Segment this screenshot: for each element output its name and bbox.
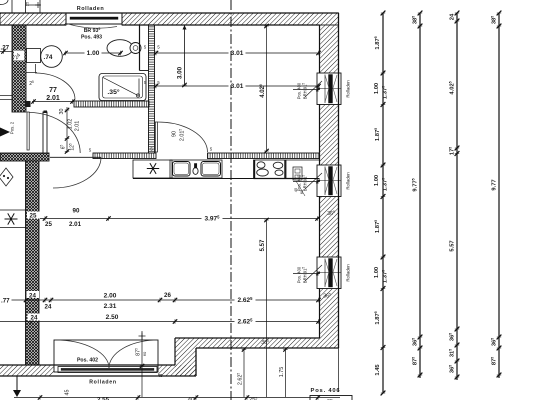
svg-text:BRH 915: BRH 915	[301, 83, 307, 100]
lines: left wall small marks	[0, 95, 13, 97]
symbol: diamond (landing)	[0, 168, 13, 186]
dim: hall line 90/2.01/3.97|5	[27, 208, 320, 229]
svg-text:2.01: 2.01	[75, 121, 81, 132]
svg-text:30: 30	[59, 109, 65, 115]
dim: 4.02|5 vertical room	[259, 24, 269, 153]
wall: left exterior lower (checkered)	[26, 161, 40, 365]
lines: toilet connection	[26, 72, 37, 74]
svg-text:5: 5	[89, 148, 92, 153]
wall: duct next to bathtub	[139, 25, 141, 71]
wall: hall checkered band	[0, 153, 49, 161]
svg-text:2.00: 2.00	[104, 293, 117, 300]
wall: bath south (ticks)	[25, 101, 149, 107]
dim: 5.57 vertical	[260, 218, 269, 397]
svg-text:90: 90	[73, 208, 80, 215]
svg-text:2.31: 2.31	[104, 303, 117, 310]
wall: top exterior band	[0, 13, 339, 25]
dim: 3.01 lower	[148, 82, 321, 90]
wall: right exterior	[320, 13, 339, 348]
dim: 3.01 upper	[148, 49, 321, 57]
svg-text:3.00: 3.00	[177, 66, 184, 79]
dim: 2.00/26/2.62|5 line	[40, 292, 321, 304]
svg-text:Rolladen: Rolladen	[77, 6, 105, 12]
svg-text:875: 875	[490, 357, 497, 365]
label: Pos. 400 / BRH (window 3)	[293, 265, 322, 283]
svg-text:2.01: 2.01	[69, 221, 82, 228]
svg-text:1.00: 1.00	[374, 267, 380, 278]
dim: entry door 30/1.02/2.01	[59, 107, 81, 154]
svg-text:Pos. 493: Pos. 493	[81, 35, 102, 41]
svg-text:BRH 915: BRH 915	[301, 267, 307, 284]
svg-text:BR 935: BR 935	[84, 27, 101, 34]
svg-text:5: 5	[157, 45, 160, 50]
svg-text:25: 25	[29, 80, 34, 87]
svg-text:65: 65	[59, 145, 66, 150]
label: Pos. 400 / BRH (window 1)	[293, 81, 322, 99]
svg-text:24: 24	[31, 315, 38, 322]
svg-text:.27: .27	[1, 45, 10, 52]
svg-text:25: 25	[45, 221, 52, 228]
svg-text:2.50: 2.50	[106, 314, 119, 321]
svg-text:365: 365	[448, 365, 455, 373]
svg-text:1.375: 1.375	[381, 178, 388, 191]
window: bottom French door Pos. 402	[54, 340, 158, 373]
svg-text:1.375: 1.375	[381, 86, 388, 99]
svg-text:Rolladen: Rolladen	[346, 80, 351, 98]
dim: .27 left top	[0, 45, 13, 54]
svg-text:24: 24	[45, 304, 52, 311]
svg-text:255: 255	[249, 396, 258, 400]
svg-text:Rolladen: Rolladen	[346, 264, 351, 282]
svg-text:5: 5	[157, 80, 160, 85]
svg-text:875: 875	[134, 348, 141, 356]
svg-text:90: 90	[172, 131, 178, 137]
svg-text:1.875: 1.875	[374, 220, 381, 233]
fixture: WC toilet	[27, 46, 63, 68]
dim: 2.50/2.62|5 line	[0, 314, 321, 326]
wall: bottom-right exterior band	[175, 338, 339, 348]
door: hall door leaf+arc	[50, 157, 101, 188]
fixture: hall radiator	[0, 210, 26, 228]
dim: 3.00 vertical	[177, 25, 187, 87]
svg-text:24: 24	[29, 293, 36, 300]
svg-text:25: 25	[25, 1, 30, 6]
svg-text:385: 385	[411, 16, 418, 24]
svg-text:Rolladen: Rolladen	[346, 172, 351, 190]
svg-text:.35°: .35°	[107, 88, 119, 96]
dim: 24 wall rotated	[14, 51, 24, 61]
svg-text:40: 40	[157, 373, 163, 378]
svg-text:77: 77	[49, 87, 57, 94]
svg-text:1.375: 1.375	[381, 270, 388, 283]
svg-text:60: 60	[142, 351, 147, 356]
dim: 77 / 2.01 bath door	[29, 80, 74, 104]
door: kitchen door leaf+arc	[155, 122, 207, 152]
dim chain 2 (x=420)	[411, 11, 422, 378]
svg-text:385: 385	[490, 16, 497, 24]
dim: 1.00 bathroom	[63, 49, 122, 57]
svg-text:26: 26	[164, 292, 171, 299]
fixture: bathtub .35	[99, 74, 146, 101]
remnant: top-left ellipse	[0, 0, 8, 5]
dim: 1.75 vertical bottom	[279, 347, 288, 397]
svg-text:405: 405	[188, 396, 197, 400]
wall: south step block	[175, 338, 196, 376]
svg-text:5.57: 5.57	[260, 239, 266, 251]
svg-text:1.875: 1.875	[374, 128, 381, 141]
svg-text:Pos. 402: Pos. 402	[77, 358, 98, 364]
svg-text:175: 175	[448, 147, 455, 155]
svg-text:2.55: 2.55	[97, 397, 110, 400]
door: French door left leaf arc	[55, 340, 109, 368]
svg-text:315: 315	[448, 349, 455, 357]
svg-text:5: 5	[210, 147, 213, 152]
dim chain 4 (x=499)	[490, 11, 501, 378]
svg-text:2.015: 2.015	[178, 129, 185, 142]
symbol: entry arrow	[0, 128, 10, 137]
label: Pos. 400 / BRH (window 2)	[293, 173, 322, 191]
svg-text:45: 45	[293, 187, 298, 192]
svg-text:1.875: 1.875	[374, 311, 381, 324]
svg-text:24: 24	[450, 13, 456, 20]
wall: entry stub	[43, 111, 47, 154]
label: Pos. 406 + box	[310, 388, 352, 400]
svg-text:1.00: 1.00	[374, 83, 380, 94]
svg-text:Pos. 406: Pos. 406	[311, 388, 341, 394]
fixture: appliance right of stove	[293, 167, 305, 196]
dim: 2.62|5 vertical bottom	[236, 347, 246, 397]
svg-text:1.75: 1.75	[279, 367, 285, 378]
svg-text:125: 125	[68, 143, 75, 151]
wall: kitchen partition (ticks)	[93, 153, 320, 159]
dim: 87|5 french door vertical	[134, 331, 145, 397]
svg-text:9.77: 9.77	[492, 179, 498, 190]
svg-text:3.975: 3.975	[205, 214, 221, 222]
svg-text:365: 365	[448, 333, 455, 341]
window: top (Pos. 493)	[66, 13, 122, 28]
door: entry door leaf+arc	[27, 112, 80, 153]
svg-text:2.01: 2.01	[46, 95, 60, 102]
svg-text:2.625: 2.625	[238, 296, 254, 304]
svg-text:5.57: 5.57	[450, 240, 456, 251]
label: Rolladen small top cut	[12, 0, 41, 13]
svg-text:3.01: 3.01	[231, 83, 244, 90]
line: wall face extension x340	[338, 348, 340, 392]
svg-text:1.02: 1.02	[68, 119, 74, 130]
svg-text:4.025: 4.025	[448, 81, 455, 94]
wall: interior bath/living (vertical)	[149, 25, 155, 153]
svg-text:3.01: 3.01	[231, 50, 244, 57]
svg-text:5: 5	[144, 45, 147, 50]
svg-text:.74: .74	[44, 54, 53, 61]
fixture: double sink	[170, 160, 222, 178]
marker: section arrow bottom-left	[13, 376, 21, 397]
svg-text:45: 45	[65, 390, 71, 396]
svg-text:25: 25	[30, 213, 37, 220]
svg-text:2.625: 2.625	[238, 317, 254, 325]
svg-text:4.025: 4.025	[259, 84, 266, 98]
dim chain 3 (x=457)	[448, 11, 459, 380]
fixture: stove 4 burners	[254, 160, 297, 179]
fixture: kitchen cabinet with symbol	[133, 160, 172, 178]
window: right wall Pos. 400 #2	[317, 165, 341, 197]
svg-text:1.45: 1.45	[375, 364, 381, 376]
svg-text:875: 875	[411, 357, 418, 365]
svg-text:1.875: 1.875	[374, 36, 381, 49]
window: right wall Pos. 400 #1	[317, 73, 341, 105]
window: right wall Pos. 400 #3	[317, 257, 341, 289]
door: bathroom door arc	[35, 73, 75, 100]
line: kitchen counter front edge	[133, 178, 320, 180]
dim: .77/24/2.31 line	[0, 291, 117, 311]
wall: bottom-left exterior band	[0, 365, 196, 376]
svg-text:Rolladen: Rolladen	[89, 380, 117, 386]
svg-text:Pos. 2: Pos. 2	[10, 121, 15, 134]
svg-text:2.625: 2.625	[236, 373, 243, 386]
svg-text:.77: .77	[1, 297, 10, 304]
dim: bottom cut line	[14, 395, 340, 400]
svg-text:1.00: 1.00	[87, 50, 100, 57]
svg-text:1.00: 1.00	[374, 175, 380, 186]
dim: 90 / 2.01 kitchen door	[172, 129, 186, 142]
fixture: washbasin	[107, 40, 141, 57]
dim chain 1 (x=383) window heights	[374, 11, 389, 396]
svg-text:9.775: 9.775	[411, 178, 418, 191]
section line (dash-dot)	[230, 0, 232, 400]
door: French door right leaf arc	[109, 340, 158, 368]
wall: left exterior upper (checkered)	[12, 25, 26, 112]
